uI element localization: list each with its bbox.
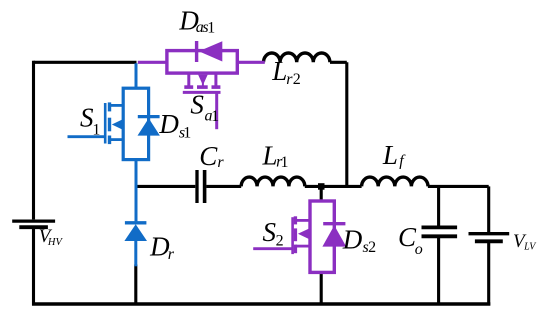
svg-text:2: 2	[276, 233, 284, 250]
svg-text:1: 1	[281, 154, 289, 171]
svg-text:1: 1	[207, 20, 215, 37]
svg-text:r: r	[168, 246, 175, 263]
svg-text:1: 1	[183, 125, 191, 142]
svg-text:D: D	[342, 224, 363, 254]
svg-text:L: L	[271, 56, 287, 86]
svg-text:o: o	[415, 241, 423, 258]
svg-text:D: D	[158, 109, 179, 139]
svg-text:r: r	[217, 154, 224, 171]
svg-text:1: 1	[92, 122, 100, 139]
svg-text:2: 2	[368, 239, 376, 256]
svg-text:LV: LV	[523, 242, 537, 253]
svg-text:C: C	[199, 141, 218, 171]
svg-text:S: S	[263, 217, 277, 247]
svg-text:S: S	[190, 90, 204, 120]
svg-text:L: L	[382, 140, 398, 170]
svg-text:HV: HV	[47, 237, 64, 248]
svg-text:1: 1	[211, 108, 219, 125]
svg-text:2: 2	[293, 71, 301, 88]
